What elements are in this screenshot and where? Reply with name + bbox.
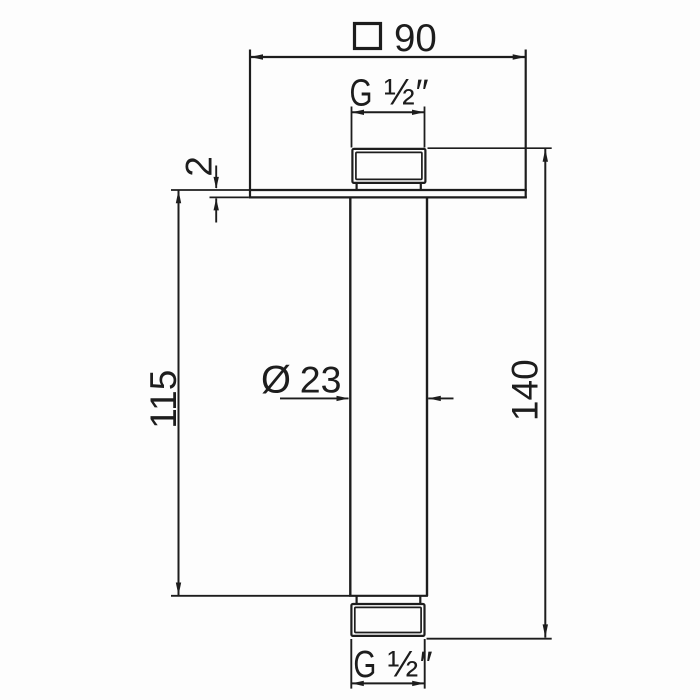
svg-text:G: G	[353, 644, 376, 686]
arrow up of 140 dim	[543, 149, 548, 162]
arrow pointing right at tube left wall	[337, 396, 350, 401]
top nut outer outline	[352, 149, 425, 183]
bottom neck right	[419, 596, 421, 603]
top nut inner outline	[356, 152, 422, 179]
arrow pointing down at flange top	[214, 177, 219, 189]
arrow left of 90 dim	[250, 54, 263, 60]
bottom neck left	[356, 596, 358, 603]
svg-text:Ø: Ø	[261, 359, 291, 402]
dim text G 1/2 inch bottom	[353, 643, 432, 686]
dimension line 90	[250, 56, 526, 58]
svg-text:″: ″	[416, 72, 429, 113]
dimension line bottom G 1/2	[351, 682, 424, 684]
dimension line right of diameter 23	[428, 397, 453, 399]
extension line bottom for 115 dim (to tube bottom)	[171, 595, 349, 597]
extension line bottom for 140 dim	[427, 638, 552, 640]
square symbol (90 square flange)	[355, 24, 381, 49]
arrow down of 140 dim	[543, 624, 548, 637]
extension of flange bottom line toward 2 dim	[210, 196, 249, 198]
dimension leader above 2 dim	[215, 166, 217, 189]
bottom nut inner outline	[355, 607, 421, 632]
dimension line 115	[178, 190, 180, 596]
tube bottom shoulder	[349, 595, 428, 597]
arrow up of 115 dim	[176, 190, 181, 203]
extension line top for 140 dim	[428, 147, 552, 149]
extension line right (flange right edge)	[525, 50, 527, 199]
dimension leader below 2 dim	[215, 198, 217, 222]
arrow right of 90 dim	[513, 54, 526, 60]
svg-text:23: 23	[300, 358, 342, 400]
arrow pointing left at tube right wall	[428, 396, 441, 401]
svg-text:″: ″	[420, 644, 433, 685]
arrow right of bottom G dim	[412, 681, 425, 686]
tube left wall	[349, 197, 351, 596]
svg-text:90: 90	[394, 17, 437, 60]
extension line left of bottom G dim	[350, 639, 352, 689]
dimension line left of diameter 23	[280, 397, 349, 399]
extension line left of top G dim	[351, 107, 353, 148]
arrow left of top G dim	[352, 110, 365, 115]
svg-text:½: ½	[384, 72, 415, 113]
extension line right of bottom G dim	[424, 639, 426, 689]
top neck left	[356, 184, 358, 190]
arrow down of 115 dim	[176, 583, 181, 596]
arrow right of top G dim	[412, 110, 425, 115]
svg-text:½: ½	[388, 643, 419, 684]
extension line right of top G dim	[424, 107, 426, 148]
tube right wall	[426, 197, 428, 596]
bottom nut outer outline	[351, 604, 424, 636]
dimension line 140	[544, 148, 546, 637]
extension line left (flange left edge)	[249, 50, 251, 199]
dim text G 1/2 inch top	[350, 72, 429, 115]
svg-text:G: G	[350, 73, 373, 115]
arrow pointing up at flange bottom	[214, 198, 219, 210]
svg-text:140: 140	[505, 359, 546, 421]
flange top line	[249, 189, 527, 191]
dimension line G 1/2 top	[352, 111, 425, 113]
extension line top for 115 dim	[171, 189, 250, 191]
arrow left of bottom G dim	[351, 681, 364, 686]
top neck right	[420, 184, 422, 190]
flange bottom line	[249, 196, 527, 198]
svg-text:2: 2	[179, 156, 220, 177]
